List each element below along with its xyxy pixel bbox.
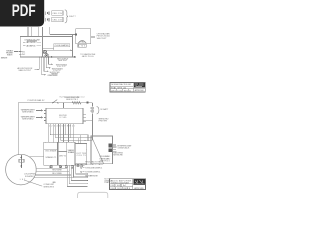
speaker wires to harness	[30, 157, 74, 178]
svg-text:XTAL: XTAL	[79, 40, 85, 43]
internal node label box	[54, 44, 70, 47]
transformer T2 box	[58, 142, 75, 165]
output enclosure box	[91, 136, 113, 164]
svg-text:APPROVED: APPROVED	[134, 187, 144, 190]
svg-text:DRG: DRG	[111, 188, 116, 190]
arrow label row 4	[42, 74, 45, 76]
title block 2 frame	[110, 179, 146, 190]
svg-text:BLK LEAD TO TAG 2: BLK LEAD TO TAG 2	[85, 163, 104, 166]
junction dots on U1 bottom edge	[39, 56, 49, 59]
partial shape at page bottom	[78, 192, 108, 198]
transistor Q1	[44, 51, 47, 54]
svg-text:MAX OUTPUT: MAX OUTPUT	[19, 69, 32, 72]
svg-text:1 2 3 4 5 6 7 8 9 10: 1 2 3 4 5 6 7 8 9 10	[49, 126, 76, 128]
svg-text:3.5MM JACK: 3.5MM JACK	[117, 147, 130, 150]
svg-text:POSITIVE RAIL 9V: POSITIVE RAIL 9V	[28, 99, 46, 102]
svg-text:SEE TEXT: SEE TEXT	[58, 60, 68, 62]
title block 1 frame	[110, 83, 145, 92]
distribution bus wires	[51, 135, 93, 142]
U1 pin row text 1	[23, 41, 25, 43]
connector pin marks	[113, 145, 116, 151]
svg-text:TO TONE CONTROL: TO TONE CONTROL	[85, 172, 101, 174]
speaker LS2 circle	[6, 154, 37, 185]
ref designator box below earpiece	[78, 44, 86, 47]
harness end dots	[87, 174, 88, 185]
svg-text:PP3 TYPE: PP3 TYPE	[99, 121, 108, 123]
title block 1 logo	[134, 83, 145, 88]
arrow label row 1	[49, 63, 52, 65]
leader from speaker to label	[24, 180, 42, 186]
svg-text:SHT: SHT	[117, 88, 122, 90]
svg-text:RED LEAD TO TAG 1: RED LEAD TO TAG 1	[85, 160, 104, 163]
switch S1	[53, 100, 57, 103]
U2 left pins	[44, 110, 46, 120]
title block 1 divider	[110, 83, 145, 92]
output wire to arrow (right of U1)	[48, 56, 74, 58]
battery B1 bracket	[97, 107, 99, 114]
title block 2 divider	[110, 179, 146, 190]
svg-text:SEE NOTE 1: SEE NOTE 1	[66, 99, 79, 101]
battery value box 1	[52, 11, 63, 16]
svg-text:SHT: SHT	[117, 185, 122, 187]
svg-text:SEE TEXT: SEE TEXT	[97, 38, 108, 40]
svg-text:REV: REV	[124, 90, 129, 92]
svg-text:DIAG: DIAG	[104, 181, 110, 184]
gain adjust diagonal	[92, 137, 104, 164]
svg-text:NETWORK: NETWORK	[113, 154, 123, 156]
U1 left pin stubs	[19, 52, 21, 55]
svg-text:PDF: PDF	[12, 2, 36, 20]
svg-text:1033: 1033	[117, 188, 123, 190]
transformer T3 box	[75, 144, 87, 165]
battery value box 2	[52, 17, 63, 22]
wire U1 to earpiece box	[72, 34, 74, 36]
brace grouping battery BATT	[65, 10, 68, 23]
svg-text:SWITCH TAG 2: SWITCH TAG 2	[22, 117, 34, 120]
transistor Q2	[45, 54, 48, 57]
wire above U1 top	[50, 27, 75, 35]
svg-text:CELL 1.5V: CELL 1.5V	[52, 19, 62, 21]
battery cell row 1 ticks	[46, 11, 49, 14]
svg-text:SPARES T1: SPARES T1	[45, 156, 57, 159]
svg-text:SEE NOTE: SEE NOTE	[1, 57, 8, 59]
svg-text:CELL 1.5V: CELL 1.5V	[52, 13, 62, 15]
title block 2 logo	[134, 179, 146, 184]
earpiece box	[76, 29, 91, 44]
connector J2	[108, 148, 111, 152]
terminal stubs	[51, 164, 82, 166]
svg-text:BLU WIRE: BLU WIRE	[52, 173, 62, 175]
arrow label row 4	[81, 171, 83, 173]
wire from lamp to note	[83, 165, 85, 167]
leader from label to wire	[53, 47, 55, 51]
svg-text:LS1: LS1	[79, 46, 87, 48]
U2 bottom pin wires	[48, 124, 73, 143]
arrowhead at right edge of bus	[70, 49, 72, 51]
svg-text:9V BATT: 9V BATT	[100, 108, 109, 111]
svg-text:COIL T3: COIL T3	[77, 155, 87, 157]
svg-text:RED WIRE: RED WIRE	[52, 170, 62, 172]
svg-text:OSC COIL: OSC COIL	[29, 42, 36, 44]
svg-text:APPROVED: APPROVED	[135, 89, 145, 92]
internal bus wire	[42, 49, 71, 51]
svg-text:WIRING DIAGRAM: WIRING DIAGRAM	[111, 181, 129, 184]
battery B1 wire	[91, 103, 93, 140]
U2 right pins	[83, 115, 86, 122]
title block 1 cell ticks	[115, 87, 129, 92]
connector on earpiece box left edge	[75, 34, 77, 36]
svg-text:OSC STAGE: OSC STAGE	[45, 150, 57, 153]
junction dots on transformer tops	[45, 142, 81, 144]
terminal lamps below boxes	[50, 166, 52, 168]
svg-text:MORSE PRACTICE SET: MORSE PRACTICE SET	[111, 83, 132, 86]
supply rail top wire	[18, 103, 92, 155]
svg-text:SW BANK: SW BANK	[68, 151, 75, 154]
transformer T1 box	[44, 142, 58, 165]
svg-text:TO VOLUME CONTROL: TO VOLUME CONTROL	[85, 168, 103, 170]
battery B1 cells	[91, 108, 95, 112]
inner divider wire in U1	[42, 36, 53, 57]
svg-text:JACK PLUG: JACK PLUG	[82, 55, 94, 58]
junction dots on buses	[50, 134, 61, 141]
arrow label row 3	[81, 167, 83, 169]
arrow label row 3	[44, 70, 47, 72]
inductor L1	[72, 102, 81, 105]
title block 2 cell ticks	[114, 184, 127, 190]
svg-text:COMMON GND: COMMON GND	[47, 75, 58, 77]
svg-text:REV: REV	[123, 188, 128, 190]
harness drop wires	[67, 164, 87, 187]
fuse blob on rail	[86, 102, 88, 104]
U2 to battery rail wire	[83, 119, 92, 121]
wire stubs from battery to U1 top	[28, 27, 42, 37]
U2 top feed wire	[63, 103, 65, 109]
wire drops below U1	[39, 57, 48, 75]
svg-text:SEE NOTE 3: SEE NOTE 3	[43, 186, 54, 188]
arrow label row 2	[46, 67, 49, 69]
svg-text:DRG: DRG	[111, 90, 116, 92]
arrow into U1 left edge	[14, 51, 18, 53]
U1 pin row text 2	[23, 45, 25, 47]
svg-text:IC 555: IC 555	[59, 117, 67, 119]
svg-text:SEE WIRE NOTE: SEE WIRE NOTE	[85, 175, 98, 177]
svg-text:SWITCH: SWITCH	[7, 54, 13, 56]
wire out of earpiece box with arrow	[91, 36, 94, 38]
IC U1 main box	[20, 36, 72, 57]
svg-text:AMP COIL: AMP COIL	[29, 44, 36, 47]
feed wires from bus to T3	[78, 135, 81, 144]
earpiece element symbol	[78, 40, 86, 43]
IC U2 main box	[46, 108, 83, 124]
svg-text:1032: 1032	[117, 90, 123, 92]
U1 heading underline	[27, 40, 37, 42]
speaker driver element	[20, 155, 22, 168]
svg-text:BATT: BATT	[69, 15, 76, 18]
svg-text:DRV T2: DRV T2	[59, 155, 67, 157]
svg-text:SWITCH TAG 1: SWITCH TAG 1	[22, 110, 34, 113]
svg-text:8 OHM 3W: 8 OHM 3W	[25, 176, 35, 178]
connector J1	[108, 144, 111, 148]
svg-text:PULSE SHAPER: PULSE SHAPER	[55, 44, 69, 47]
battery cell row 2 ticks	[46, 18, 49, 21]
